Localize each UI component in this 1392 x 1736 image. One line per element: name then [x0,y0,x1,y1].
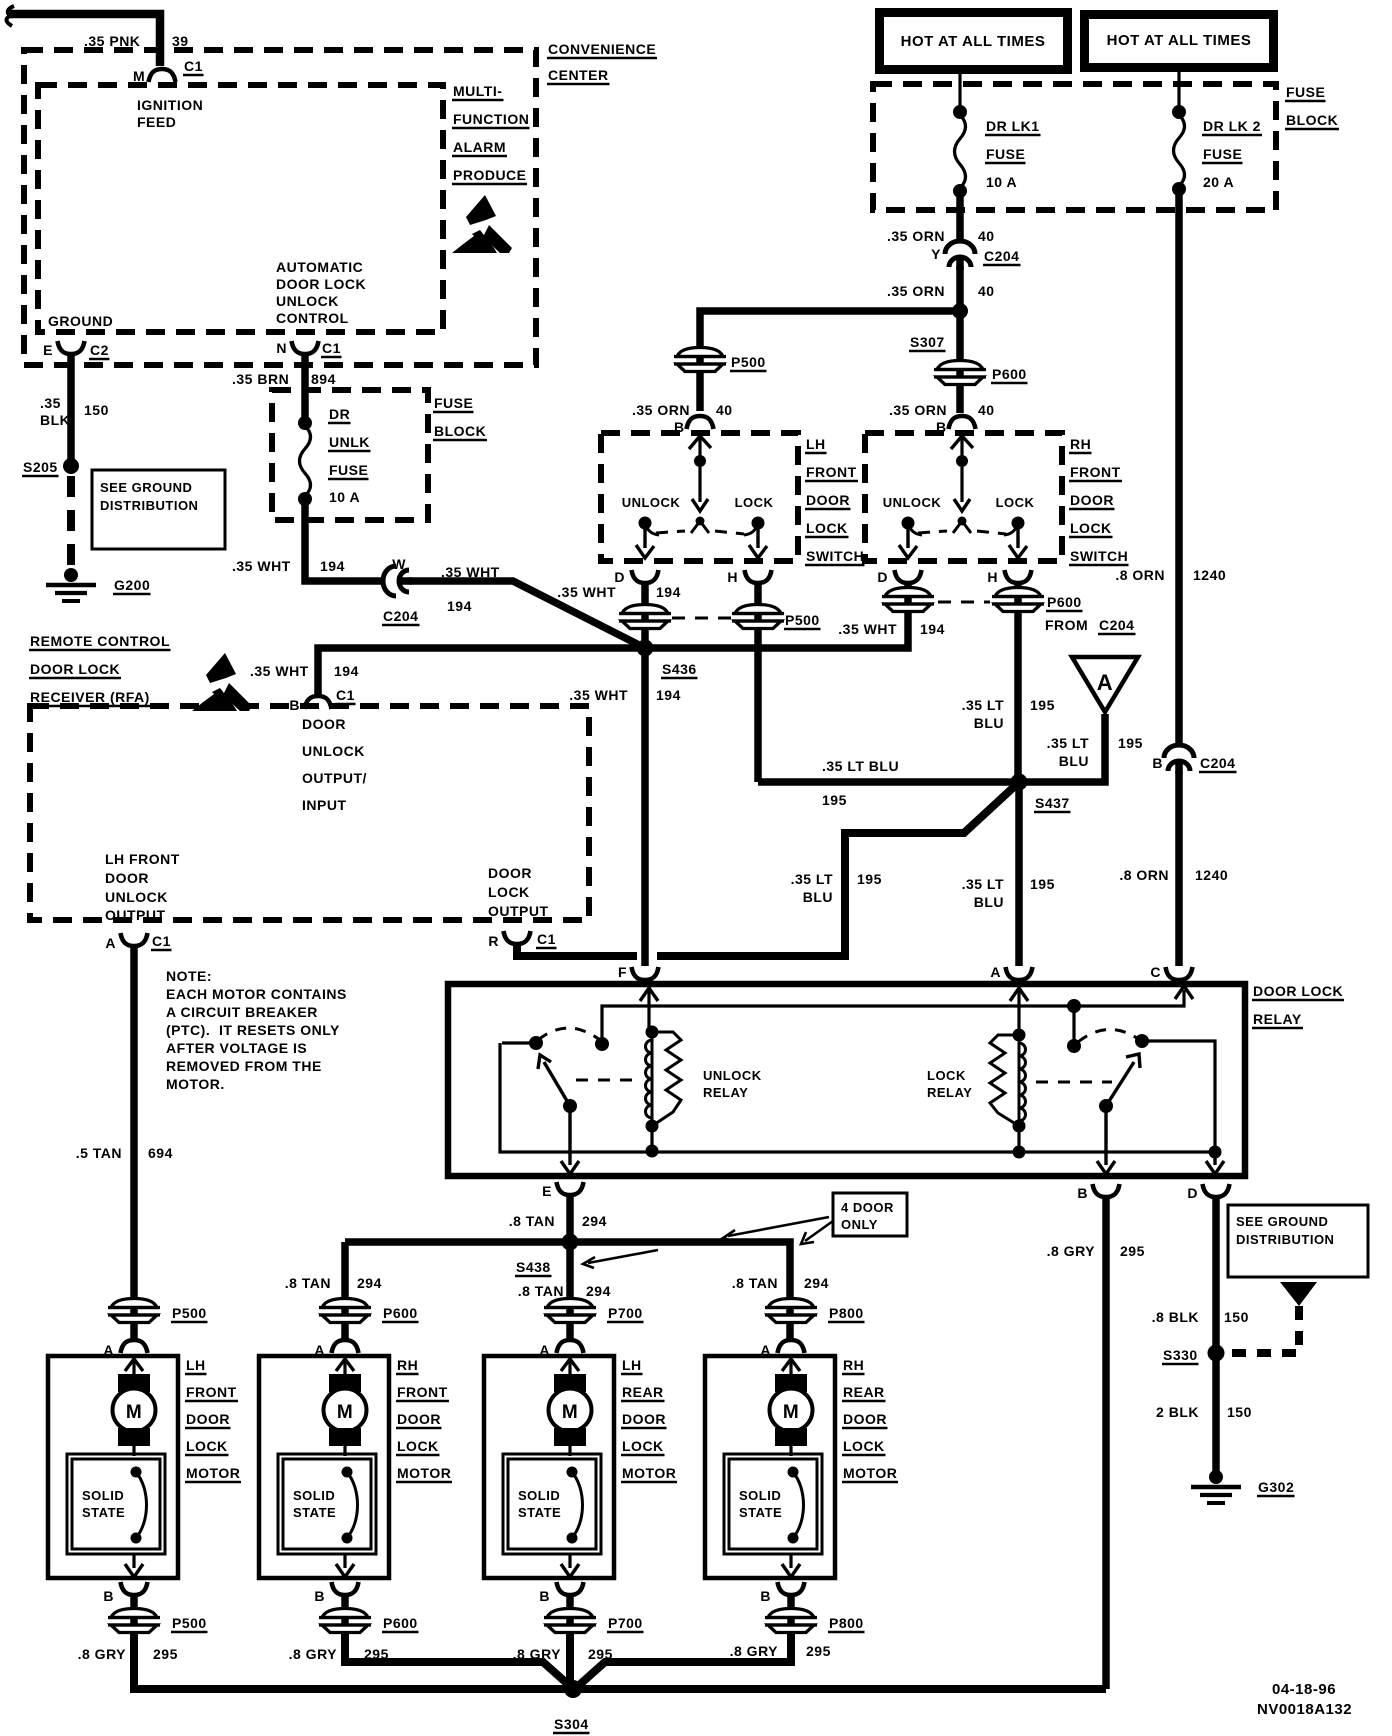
svg-text:C: C [1150,964,1161,980]
relay pin F entry arrow [640,988,658,1001]
svg-text:D: D [877,569,888,585]
see ground distribution note box [92,470,225,549]
inline connector P600 below motor [341,1597,349,1640]
unlock switch movable arm [563,1099,577,1113]
svg-text:FUSE: FUSE [1286,84,1325,100]
svg-text:LH: LH [622,1357,642,1373]
motor output arrow [568,1554,571,1568]
svg-text:DR: DR [329,406,350,422]
wire 194 from S436 right to RH switch pin D [645,585,908,648]
wire ignition feed .35 PNK 39 with off-page hook [6,6,14,26]
svg-text:NOTE:: NOTE: [166,968,212,984]
svg-text:DOOR: DOOR [488,865,532,881]
LH FRONT DOOR LOCK MOTOR box [48,1356,178,1578]
svg-text:20 A: 20 A [1203,174,1234,190]
svg-text:M: M [133,68,145,84]
svg-text:.8 TAN: .8 TAN [518,1283,564,1299]
svg-text:LOCK: LOCK [996,495,1035,510]
svg-text:.35 ORN: .35 ORN [887,228,945,244]
connector pin B C1 door unlock output/input [305,696,332,709]
unlock switch fixed contact left [529,1036,543,1050]
svg-text:C1: C1 [152,933,171,949]
svg-text:DOOR: DOOR [806,492,850,508]
svg-text:.35: .35 [40,395,61,411]
svg-text:195: 195 [1030,697,1055,713]
splice S330 [1208,1345,1225,1362]
svg-text:P700: P700 [608,1305,643,1321]
svg-text:HOT AT ALL TIMES: HOT AT ALL TIMES [1107,32,1252,49]
motor feed arrow [561,1359,579,1371]
lock coil to bottom rail [1017,1126,1020,1152]
svg-text:M: M [562,1402,578,1423]
svg-text:INPUT: INPUT [302,797,347,813]
connector pin E C2 ground output [58,341,85,354]
svg-text:DOOR LOCK: DOOR LOCK [1253,983,1343,999]
wire LH H corner to S437 [758,778,1021,786]
relay pin B cup [1093,1184,1120,1197]
svg-text:UNLOCK: UNLOCK [883,495,942,510]
lock contact with arrow to pin H [1012,517,1025,530]
svg-text:MULTI-: MULTI- [453,83,502,99]
svg-text:194: 194 [334,663,359,679]
annotation arrow to wire 294 [728,1217,829,1236]
svg-text:FUSE: FUSE [434,395,473,411]
svg-text:SEE GROUND: SEE GROUND [1236,1214,1328,1229]
ground distribution triangle [1280,1282,1317,1306]
dashed link between P600 halves [938,601,990,604]
svg-text:195: 195 [857,871,882,887]
svg-text:B: B [1077,1185,1088,1201]
inline connector C204 pin Y [945,241,975,270]
svg-text:LOCK: LOCK [488,884,530,900]
svg-text:.35 ORN: .35 ORN [889,402,947,418]
motor pin B cup [121,1582,148,1595]
svg-text:B: B [314,1588,325,1604]
svg-text:UNLOCK: UNLOCK [703,1068,762,1083]
svg-text:FRONT: FRONT [806,464,857,480]
svg-text:.35 BRN: .35 BRN [232,371,289,387]
svg-text:LOCK: LOCK [927,1068,966,1083]
RFA dashed box [30,706,589,920]
power box HOT AT ALL TIMES right [1080,10,1278,72]
svg-text:P800: P800 [829,1615,864,1631]
inline connector P600 above RH FRONT motor [319,1299,371,1323]
svg-text:194: 194 [320,558,345,574]
wire feed into DR LK1 fuse [958,70,961,108]
unlock contact with arrow to pin D [639,517,652,530]
motor pin A cup [778,1340,805,1353]
svg-text:DOOR: DOOR [622,1411,666,1427]
svg-text:BLOCK: BLOCK [1286,112,1338,128]
wire .35 WHT 194 from C204 to splice S436 (diagonal) [409,581,645,648]
wire .8 GRY 295 LH rear motor to S304 [566,1634,574,1689]
svg-text:LOCK: LOCK [735,495,774,510]
svg-text:40: 40 [978,402,995,418]
inline connector P500 on LH D wire [619,605,671,629]
svg-text:SEE GROUND: SEE GROUND [100,480,192,495]
switch pivot contact [696,517,705,526]
circuit breaker contact arc [567,1467,578,1478]
splice S205 [63,458,79,474]
ground rail to relay B wire [573,1685,1106,1693]
svg-text:UNLOCK: UNLOCK [622,495,681,510]
svg-text:.8 GRY: .8 GRY [78,1646,127,1662]
svg-text:P600: P600 [992,366,1027,382]
svg-text:B: B [289,697,300,713]
wire .8 ORN 1240 from C204 to relay pin C [1175,771,1183,966]
svg-text:MOTOR: MOTOR [186,1465,240,1481]
svg-text:RH: RH [843,1357,864,1373]
svg-text:CONTROL: CONTROL [276,310,349,326]
circuit breaker contact arc [342,1467,353,1478]
svg-text:FUSE: FUSE [329,462,368,478]
svg-text:BLU: BLU [1059,753,1089,769]
svg-text:H: H [727,569,738,585]
door lock relay box [448,984,1245,1176]
svg-text:LOCK: LOCK [806,520,848,536]
svg-text:CONVENIENCE: CONVENIENCE [548,41,656,57]
svg-text:C1: C1 [537,931,556,947]
ground G200 [64,568,78,582]
svg-text:2 BLK: 2 BLK [1156,1404,1199,1420]
convenience center outer dashed box [24,50,536,365]
svg-text:IGNITION: IGNITION [137,97,203,113]
svg-text:39: 39 [172,33,189,49]
lock relay coil [1013,1029,1026,1042]
dashed wire triangle to S330 [1226,1306,1299,1353]
svg-text:.8 GRY: .8 GRY [289,1646,338,1662]
svg-text:UNLOCK: UNLOCK [276,293,339,309]
svg-text:40: 40 [978,283,995,299]
svg-text:S205: S205 [23,459,58,475]
motor output arrow [132,1554,135,1568]
svg-text:1240: 1240 [1195,867,1228,883]
ESD sensitivity symbol near RFA [192,653,252,711]
svg-text:AFTER VOLTAGE IS: AFTER VOLTAGE IS [166,1040,307,1056]
RH FRONT door lock switch dashed box [865,433,1062,561]
switch pin B dome [687,416,714,429]
wire .35 BRN 894 from N C1 into fuse block [301,356,309,420]
motor feed arrow [336,1359,354,1371]
svg-text:REMOVED FROM THE: REMOVED FROM THE [166,1058,322,1074]
lock switch dashed throw arc [1078,1029,1140,1042]
svg-text:EACH MOTOR CONTAINS: EACH MOTOR CONTAINS [166,986,347,1002]
svg-text:195: 195 [822,792,847,808]
circuit breaker contact arc [131,1467,142,1478]
svg-text:DOOR LOCK: DOOR LOCK [276,276,366,292]
relay pin D cup [1203,1184,1230,1197]
svg-text:FRONT: FRONT [397,1384,448,1400]
switch pin B dome [949,416,976,429]
svg-text:OUTPUT/: OUTPUT/ [302,770,367,786]
svg-text:S438: S438 [516,1259,551,1275]
unlock arm output arrow to pin E [568,1106,571,1165]
relay pin C cup [1166,967,1193,980]
switch pin H cup [745,570,772,583]
svg-text:.35 ORN: .35 ORN [887,283,945,299]
svg-text:ALARM: ALARM [453,139,506,155]
svg-text:C1: C1 [184,58,203,74]
lock switch fixed contact right [1135,1034,1149,1048]
svg-text:HOT AT ALL TIMES: HOT AT ALL TIMES [901,33,1046,50]
svg-text:DOOR: DOOR [1070,492,1114,508]
svg-text:4 DOOR: 4 DOOR [841,1200,894,1215]
connector pin A C1 LH front door unlock output [121,933,148,946]
inline connector P600 on RH H wire [992,588,1044,612]
svg-text:295: 295 [806,1643,831,1659]
fuse DR UNLK 10A element [298,416,312,430]
svg-text:RH: RH [1070,436,1091,452]
svg-text:.35 WHT: .35 WHT [838,621,897,637]
svg-text:LH: LH [806,436,826,452]
svg-text:S304: S304 [554,1716,589,1732]
svg-text:SWITCH: SWITCH [806,548,864,564]
svg-text:294: 294 [804,1275,829,1291]
switch pivot contact [958,517,967,526]
splice S438 [562,1234,579,1251]
motor symbol M [554,1374,586,1392]
svg-text:P600: P600 [383,1305,418,1321]
svg-text:Y: Y [931,246,941,262]
wire LH switch pin D to splice S436 [641,585,649,648]
solid state circuit breaker box [724,1454,822,1554]
switch common feed arrow and contact [689,436,711,449]
motor pin B cup [778,1582,805,1595]
svg-text:.35 LT: .35 LT [1047,735,1089,751]
splice S304 [564,1680,582,1698]
unlock switch dashed throw arc [538,1028,600,1040]
svg-text:D: D [614,569,625,585]
svg-text:DR LK1: DR LK1 [986,118,1040,134]
svg-text:W: W [392,556,406,572]
relay pin F cup [632,967,659,980]
svg-text:N: N [276,340,287,356]
svg-text:UNLOCK: UNLOCK [105,889,168,905]
wire .8 GRY 295 RH front motor diagonal to S304 [345,1634,571,1687]
switch pin D cup [895,570,922,583]
svg-text:.35 WHT: .35 WHT [232,558,291,574]
svg-text:LOCK: LOCK [622,1438,664,1454]
motor pin A cup [121,1340,148,1353]
wire 194 from S436 down to relay pin F [641,648,649,966]
wire .8 TAN 294 from relay E to splice S438 [566,1197,574,1242]
svg-text:UNLK: UNLK [329,434,370,450]
motor pin B cup [332,1582,359,1595]
svg-text:OUTPUT: OUTPUT [488,903,549,919]
page reference triangle A [1072,657,1138,712]
svg-text:.8 GRY: .8 GRY [730,1643,779,1659]
svg-text:SOLID: SOLID [293,1488,335,1503]
svg-text:694: 694 [148,1145,173,1161]
svg-text:LOCK: LOCK [1070,520,1112,536]
svg-text:RELAY: RELAY [927,1085,972,1100]
svg-text:.8 GRY: .8 GRY [1047,1243,1096,1259]
svg-text:LOCK: LOCK [397,1438,439,1454]
svg-text:F: F [618,964,627,980]
relay D output arrow [1213,1152,1216,1165]
svg-text:894: 894 [311,371,336,387]
wire .5 TAN 694 from A C1 to LH front motor [130,948,138,1340]
dashed mechanical link unlock coil to arm [576,1079,641,1082]
relay pin A entry arrow [1010,988,1028,1001]
svg-text:OUTPUT: OUTPUT [105,907,166,923]
LH REAR DOOR LOCK MOTOR box [484,1356,614,1578]
svg-text:.35 WHT: .35 WHT [557,584,616,600]
svg-text:.35 ORN: .35 ORN [632,402,690,418]
svg-text:DOOR: DOOR [397,1411,441,1427]
svg-text:P500: P500 [172,1615,207,1631]
wire .35 ORN 40 from C204 to splice S307 [956,266,964,311]
RH REAR DOOR LOCK MOTOR box [705,1356,835,1578]
svg-text:B: B [103,1588,114,1604]
svg-text:UNLOCK: UNLOCK [302,743,365,759]
svg-text:295: 295 [1120,1243,1145,1259]
svg-text:S307: S307 [910,334,945,350]
unlock switch fixed contact right from top rail [595,1037,609,1051]
svg-text:ONLY: ONLY [841,1217,878,1232]
svg-text:40: 40 [978,228,995,244]
svg-text:.8 TAN: .8 TAN [285,1275,331,1291]
unlock coil to bottom rail [650,1126,653,1151]
ground G302 [1209,1470,1223,1484]
svg-text:RELAY: RELAY [703,1085,748,1100]
svg-text:G302: G302 [1258,1479,1294,1495]
wire .8 GRY 295 from relay B to bottom rail [1102,1197,1110,1689]
lock switch movable arm [1099,1099,1113,1113]
relay top rail [602,990,1184,1044]
annotation arrow to corner [805,1221,833,1241]
svg-text:BLU: BLU [803,889,833,905]
svg-text:C204: C204 [1099,617,1134,633]
svg-text:FUSE: FUSE [1203,146,1242,162]
svg-text:PRODUCE: PRODUCE [453,167,527,183]
svg-text:FUNCTION: FUNCTION [453,111,529,127]
fuse block dashed box top right [873,84,1276,210]
dashed link between P500 halves [672,617,731,620]
splice S437 [1011,774,1028,791]
svg-text:.35 WHT: .35 WHT [441,564,500,580]
svg-text:.35 WHT: .35 WHT [569,687,628,703]
svg-text:294: 294 [357,1275,382,1291]
svg-text:FRONT: FRONT [186,1384,237,1400]
svg-text:BLK: BLK [40,412,70,428]
motor pin B cup [557,1582,584,1595]
lock contact with arrow to pin H [752,517,765,530]
svg-text:150: 150 [1227,1404,1252,1420]
svg-text:RH: RH [397,1357,418,1373]
inline connector P500 [674,348,726,372]
svg-text:FROM: FROM [1045,617,1088,633]
svg-text:BLOCK: BLOCK [434,423,486,439]
inline connector on RH D wire [882,588,934,612]
svg-text:A: A [1097,670,1113,695]
svg-text:MOTOR: MOTOR [843,1465,897,1481]
motor output arrow [343,1554,346,1568]
switch throw dashes [656,531,685,533]
svg-text:.8 TAN: .8 TAN [732,1275,778,1291]
inline connector P800 below motor [787,1597,795,1640]
svg-text:150: 150 [84,402,109,418]
svg-text:.5 TAN: .5 TAN [76,1145,122,1161]
switch common feed arrow and contact [951,436,973,449]
wire .35 WHT 194 from splice S436 to RFA pin B [318,648,643,695]
lock switch feed contact from top rail [1067,999,1081,1013]
inline connector C204 pin B on ORN 1240 [1164,745,1194,774]
svg-text:195: 195 [1030,876,1055,892]
switch pin D cup [632,570,659,583]
4 door only note box [833,1193,907,1236]
wire .8 GRY 295 RH rear motor diagonal to S304 [577,1634,791,1687]
svg-text:P700: P700 [608,1615,643,1631]
svg-text:.35 LT BLU: .35 LT BLU [822,758,899,774]
svg-text:LH FRONT: LH FRONT [105,851,180,867]
motor feed arrow [782,1359,800,1371]
wire .35 BLK 150 from E C2 to S205 [67,356,75,463]
svg-text:B: B [674,419,685,435]
svg-text:195: 195 [1118,735,1143,751]
svg-text:.35 LT: .35 LT [962,876,1004,892]
svg-text:FEED: FEED [137,114,176,130]
svg-text:40: 40 [716,402,733,418]
svg-text:A CIRCUIT BREAKER: A CIRCUIT BREAKER [166,1004,318,1020]
svg-text:MOTOR: MOTOR [622,1465,676,1481]
solid state circuit breaker box [503,1454,601,1554]
LH FRONT door lock switch dashed box [601,433,798,561]
svg-text:150: 150 [1224,1309,1249,1325]
svg-text:R: R [488,933,499,949]
wire S438 down to LH rear door motor [566,1242,574,1340]
power box HOT AT ALL TIMES left [875,8,1072,74]
svg-text:C204: C204 [984,248,1019,264]
svg-text:194: 194 [447,598,472,614]
svg-text:M: M [337,1402,353,1423]
svg-text:RECEIVER (RFA): RECEIVER (RFA) [30,689,150,705]
switch throw dashes [918,531,947,533]
motor pin A cup [332,1340,359,1353]
svg-text:P500: P500 [172,1305,207,1321]
svg-text:P800: P800 [829,1305,864,1321]
svg-text:.8 BLK: .8 BLK [1152,1309,1199,1325]
svg-text:DR LK 2: DR LK 2 [1203,118,1261,134]
svg-text:P500: P500 [785,612,820,628]
svg-text:295: 295 [153,1646,178,1662]
wire LH switch pin H down to net 195 corner [754,585,762,782]
svg-text:H: H [987,569,998,585]
svg-text:B: B [936,419,947,435]
svg-text:BLU: BLU [974,715,1004,731]
wire .35 ORN 40 to RH switch via P600 [956,311,964,413]
svg-text:1240: 1240 [1193,567,1226,583]
fuse block dashed box (DR UNLK) [272,390,428,520]
svg-text:E: E [43,342,53,358]
motor feed arrow [125,1359,143,1371]
motor symbol M [329,1374,361,1392]
relay pin A cup [1006,967,1033,980]
inline connector P700 below motor [566,1597,574,1640]
svg-text:194: 194 [656,584,681,600]
connector pin N C1 automatic door lock unlock control output [292,341,319,354]
inline connector P800 above RH REAR motor [765,1299,817,1323]
wire .8 ORN 1240 from fuse DR LK 2 down to C204 pin B [1175,193,1183,745]
svg-text:DOOR: DOOR [302,716,346,732]
dashed wire S205 to G200 [67,476,75,574]
svg-text:A: A [990,964,1001,980]
svg-text:B: B [760,1588,771,1604]
svg-text:REAR: REAR [843,1384,885,1400]
svg-text:P600: P600 [383,1615,418,1631]
inline connector P700 above LH REAR motor [544,1299,596,1323]
svg-text:D: D [1187,1185,1198,1201]
